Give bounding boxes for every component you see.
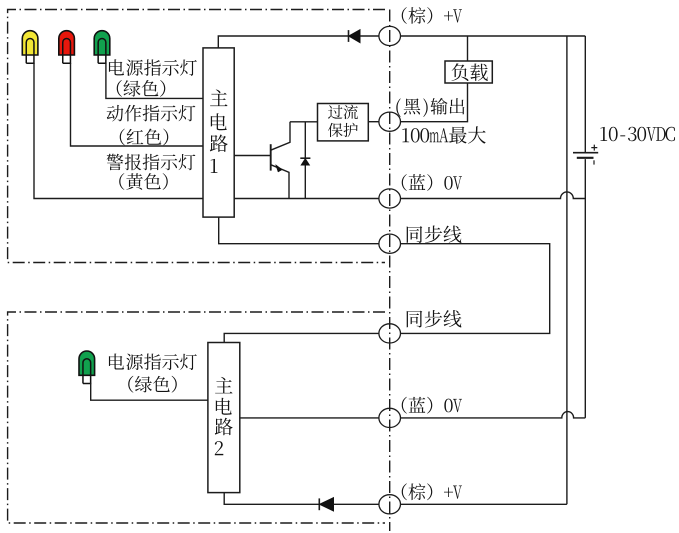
label （棕）+V unit2 [402,483,462,500]
label （红色） [120,129,169,146]
wire sync terminal to 主电路2 [224,333,379,342]
load box 负载 [445,61,492,83]
terminal +V unit1 [379,26,401,45]
battery 10-30VDC [573,145,598,165]
label 100mA最大 [402,126,486,143]
wire yellow LED to 0V rail [34,63,203,198]
wire 0V unit1 right with hop [401,192,586,199]
LED green (电源指示灯) [94,31,110,55]
label 警报指示灯 [107,154,196,171]
label （黄色） [119,173,168,190]
wire 0V unit2 right with hop [401,412,586,418]
main circuit 1 box 主电路1 [203,48,234,217]
battery to 0V rails [584,159,586,418]
label 同步线 unit1 [407,225,462,242]
wire 主电路1 top to diode D1 [218,36,348,48]
terminal centerline (dash-dot) [389,10,391,532]
wire 主电路1 to sync terminal [219,217,379,244]
label （蓝）0V unit1 [402,174,462,191]
wire 主电路2 bottom to diode D2 [224,493,319,505]
terminal sync unit1 [379,234,401,253]
wire 过流保护 to output terminal [368,121,379,123]
label 同步线 unit2 [407,310,462,327]
LED yellow (警报指示灯) [22,31,38,55]
terminal output (黑) [379,112,401,131]
diode D1 [349,30,379,43]
label （绿色） (unit1) [117,80,166,97]
+V link bus [566,36,568,504]
label 电源指示灯 (unit1) [109,59,197,76]
wire collector to 过流保护 [290,121,318,123]
terminal 0V unit2 [379,408,401,427]
diode D3 flyback [300,122,310,199]
wire load to output line [401,83,468,122]
wire +V rail unit1 [401,35,586,37]
terminal sync unit2 [379,324,401,343]
label （蓝）0V unit2 [402,397,462,414]
battery supply branch [584,36,586,152]
label 电源指示灯 (unit2) [109,354,197,371]
terminal +V unit2 [379,495,401,514]
wire red LED to 主电路1 [71,63,204,146]
main circuit 2 box 主电路2 [208,343,240,493]
overcurrent protection box 过流保护 [318,104,369,141]
label （绿色） (unit2) [128,376,177,393]
label 10-30VDC [600,127,675,141]
wire 0V unit2 left [240,417,379,419]
sync link wire between units [401,244,550,334]
wire +V unit2 right [401,503,567,505]
wire green LED unit2 to 主电路2 [91,383,208,400]
label 动作指示灯 [107,105,196,122]
diode D2 [319,498,379,511]
wire 0V unit1 left [234,198,379,200]
unit 2 enclosure (dash-dot border) [8,312,385,523]
wire green LED to 主电路1 [106,63,203,98]
transistor Q1 [271,122,290,199]
LED green unit2 (电源指示灯) [79,351,95,375]
label （棕）+V unit1 [402,7,462,24]
unit 1 enclosure (dash-dot border) [8,10,385,263]
terminal 0V unit1 [379,189,401,208]
wire base 主电路1 to Q1 [234,155,270,157]
label (黑)输出 [396,98,464,117]
wire +V rail to load [467,36,469,61]
LED red (动作指示灯) [59,31,75,55]
